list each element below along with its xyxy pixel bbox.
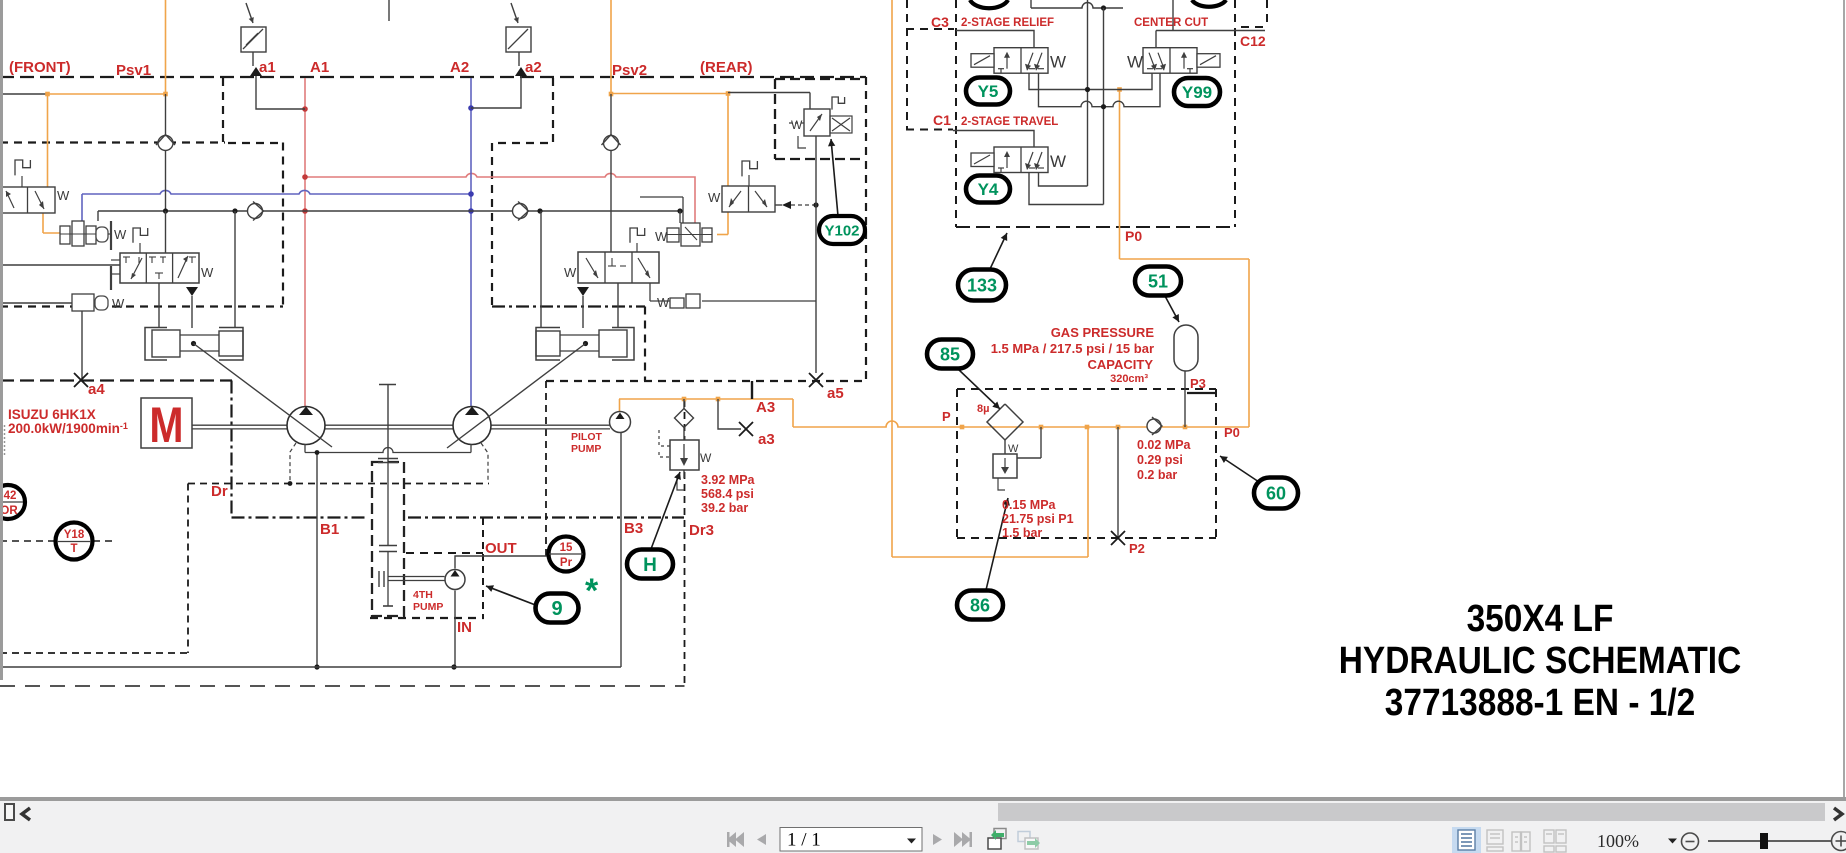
svg-text:Psv2: Psv2 — [612, 62, 647, 79]
svg-text:P0: P0 — [1125, 228, 1142, 244]
svg-text:Y102: Y102 — [824, 222, 859, 239]
svg-text:15: 15 — [560, 542, 573, 554]
svg-text:568.4 psi: 568.4 psi — [701, 487, 754, 501]
svg-text:H: H — [643, 555, 657, 576]
svg-text:200.0kW/1900min-1: 200.0kW/1900min-1 — [8, 421, 128, 436]
svg-text:(REAR): (REAR) — [700, 59, 753, 76]
svg-text:*: * — [585, 572, 599, 610]
svg-text:T: T — [70, 543, 77, 555]
svg-text:Dr: Dr — [211, 483, 228, 500]
svg-text:a2: a2 — [525, 59, 542, 76]
svg-text:M: M — [149, 397, 183, 453]
svg-text:39.2 bar: 39.2 bar — [701, 501, 748, 515]
svg-text:A3: A3 — [756, 399, 775, 416]
svg-text:PUMP: PUMP — [413, 601, 443, 613]
svg-text:C12: C12 — [1240, 33, 1266, 49]
svg-text:ISUZU 6HK1X: ISUZU 6HK1X — [8, 407, 96, 422]
svg-text:PILOT: PILOT — [571, 431, 603, 443]
svg-text:OR: OR — [0, 505, 18, 517]
svg-text:a3: a3 — [758, 431, 775, 448]
svg-text:1.5 MPa / 217.5 psi / 15 bar: 1.5 MPa / 217.5 psi / 15 bar — [991, 341, 1154, 356]
svg-text:(FRONT): (FRONT) — [9, 59, 71, 76]
svg-text:a4: a4 — [88, 381, 105, 398]
svg-text:0.15 MPa: 0.15 MPa — [1002, 498, 1057, 512]
svg-text:133: 133 — [967, 275, 997, 295]
svg-text:0.2 bar: 0.2 bar — [1137, 468, 1177, 482]
svg-text:C3: C3 — [931, 14, 949, 30]
svg-text:51: 51 — [1148, 271, 1168, 291]
svg-text:W: W — [1127, 53, 1143, 72]
svg-text:B3: B3 — [624, 520, 643, 537]
svg-text:W: W — [657, 295, 670, 310]
svg-text:P0: P0 — [1224, 425, 1240, 440]
svg-text:B1: B1 — [320, 521, 339, 538]
svg-text:a5: a5 — [827, 385, 844, 402]
svg-text:P: P — [942, 409, 951, 424]
svg-text:Y4: Y4 — [978, 180, 999, 199]
svg-text:1.5 bar: 1.5 bar — [1002, 526, 1042, 540]
svg-text:Y18: Y18 — [64, 529, 85, 541]
svg-text:60: 60 — [1266, 483, 1286, 503]
svg-text:A1: A1 — [310, 59, 329, 76]
svg-text:8µ: 8µ — [977, 403, 989, 415]
svg-text:W: W — [201, 265, 214, 280]
svg-text:CAPACITY: CAPACITY — [1088, 357, 1154, 372]
svg-text:2-STAGE RELIEF: 2-STAGE RELIEF — [961, 17, 1054, 29]
svg-text:W: W — [1050, 53, 1066, 72]
svg-text:Pr: Pr — [560, 557, 573, 569]
svg-text:W: W — [700, 451, 712, 465]
svg-text:W: W — [564, 265, 577, 280]
svg-text:0.29 psi: 0.29 psi — [1137, 453, 1183, 467]
svg-text:21.75 psi P1: 21.75 psi P1 — [1002, 512, 1074, 526]
svg-text:320cm³: 320cm³ — [1110, 373, 1148, 385]
svg-text:W: W — [655, 229, 668, 244]
svg-text:a1: a1 — [259, 59, 276, 76]
svg-text:OUT: OUT — [485, 540, 517, 557]
svg-text:Dr3: Dr3 — [689, 522, 714, 539]
svg-text:PUMP: PUMP — [571, 443, 601, 455]
svg-text:3.92 MPa: 3.92 MPa — [701, 473, 756, 487]
svg-text:Psv1: Psv1 — [116, 62, 151, 79]
svg-text:0.02 MPa: 0.02 MPa — [1137, 438, 1192, 452]
svg-text:A2: A2 — [450, 59, 469, 76]
svg-text:P2: P2 — [1129, 541, 1145, 556]
svg-text:85: 85 — [940, 344, 960, 364]
svg-text:W: W — [57, 188, 70, 203]
svg-text:W: W — [1008, 443, 1019, 455]
svg-text:W: W — [791, 118, 803, 132]
svg-text:Y5: Y5 — [978, 82, 999, 101]
svg-text:42: 42 — [4, 490, 17, 502]
svg-text:86: 86 — [970, 595, 990, 615]
svg-text:Y99: Y99 — [1182, 83, 1212, 102]
svg-text:W: W — [114, 227, 127, 242]
svg-text:P3: P3 — [1190, 376, 1206, 391]
svg-text:W: W — [1050, 152, 1066, 171]
svg-text:IN: IN — [457, 619, 472, 636]
svg-text:W: W — [708, 190, 721, 205]
svg-text:9: 9 — [551, 598, 562, 620]
svg-text:GAS PRESSURE: GAS PRESSURE — [1051, 325, 1155, 340]
svg-text:2-STAGE TRAVEL: 2-STAGE TRAVEL — [961, 116, 1058, 128]
svg-text:CENTER CUT: CENTER CUT — [1134, 17, 1208, 29]
svg-text:C1: C1 — [933, 112, 951, 128]
svg-text:W: W — [112, 296, 125, 311]
svg-text:4TH: 4TH — [413, 589, 433, 601]
